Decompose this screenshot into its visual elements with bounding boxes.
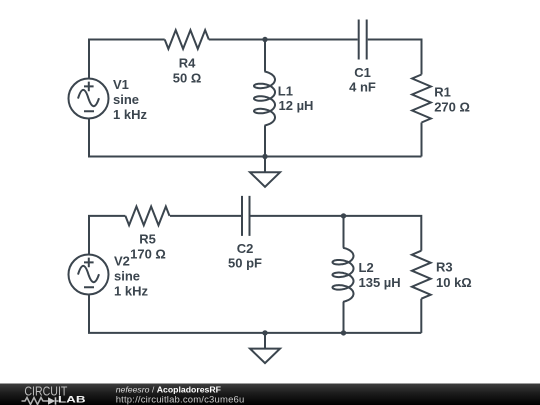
wire middle branch top of L1 — [264, 40, 266, 72]
svg-text:sine: sine — [113, 92, 139, 107]
inductor L1 — [254, 72, 275, 126]
wire L2 top lead — [343, 216, 345, 248]
logo diode — [46, 400, 48, 402]
svg-text:50 pF: 50 pF — [228, 256, 262, 271]
wire C1 to top-right corner down to R1 — [368, 40, 422, 75]
node dot L1 bottom / ground junction — [262, 154, 267, 159]
node dot C2/L2 junction — [341, 213, 346, 218]
svg-text:50 Ω: 50 Ω — [173, 71, 202, 86]
svg-text:L1: L1 — [278, 84, 293, 99]
node dot ground 2 junction — [262, 330, 267, 335]
wire C2 to top-right corner down to R3 — [251, 216, 422, 251]
wire bottom of circuit 2 — [89, 295, 421, 333]
wire R4 to C1 — [209, 39, 358, 41]
wire L1 bottom lead — [264, 126, 266, 157]
svg-text:C1: C1 — [354, 65, 371, 80]
svg-text:135 µH: 135 µH — [359, 275, 401, 290]
svg-text:nefeesro / AcopladoresRF: nefeesro / AcopladoresRF — [116, 384, 221, 394]
resistor R1 — [412, 75, 431, 123]
ground (circuit 2) — [264, 333, 266, 349]
svg-text:270 Ω: 270 Ω — [434, 99, 470, 114]
svg-text:1 kHz: 1 kHz — [114, 284, 148, 299]
resistor R3 — [412, 251, 431, 299]
capacitor C2 — [242, 196, 250, 236]
svg-text:http://circuitlab.com/c3ume6u: http://circuitlab.com/c3ume6u — [116, 395, 245, 405]
svg-text:4 nF: 4 nF — [349, 80, 376, 95]
wire R3 bottom lead — [420, 299, 422, 333]
wire R5 to C2 — [170, 215, 241, 217]
svg-text:LAB: LAB — [58, 395, 86, 405]
svg-text:R3: R3 — [436, 260, 453, 275]
svg-text:V2: V2 — [114, 254, 130, 269]
svg-text:L2: L2 — [359, 260, 374, 275]
capacitor C1 — [359, 20, 367, 60]
wire R1 bottom lead — [421, 123, 423, 157]
svg-text:10 kΩ: 10 kΩ — [436, 275, 472, 290]
svg-text:R4: R4 — [179, 56, 196, 71]
svg-text:C2: C2 — [237, 241, 254, 256]
node dot R4/L1/C1 junction — [262, 37, 267, 42]
inductor L2 — [333, 248, 354, 302]
voltage source V2 — [69, 255, 109, 295]
svg-text:V1: V1 — [113, 77, 129, 92]
resistor R5 — [125, 206, 169, 225]
ground (circuit 1) — [264, 157, 266, 173]
logo resistor squiggle — [22, 398, 47, 405]
svg-text:12 µH: 12 µH — [279, 98, 314, 113]
voltage source V1 — [69, 79, 109, 119]
node dot L2 bottom junction — [341, 330, 346, 335]
wire top-left segment of circuit 1 — [89, 40, 165, 79]
wire top-left segment of circuit 2 — [89, 216, 125, 255]
wire bottom of circuit 1 — [89, 119, 422, 157]
resistor R4 — [165, 30, 209, 49]
svg-text:170 Ω: 170 Ω — [130, 247, 166, 262]
svg-text:R1: R1 — [434, 84, 451, 99]
svg-text:sine: sine — [114, 269, 140, 284]
svg-text:R5: R5 — [139, 232, 156, 247]
svg-text:1 kHz: 1 kHz — [113, 107, 147, 122]
wire L2 bottom lead — [343, 302, 345, 333]
